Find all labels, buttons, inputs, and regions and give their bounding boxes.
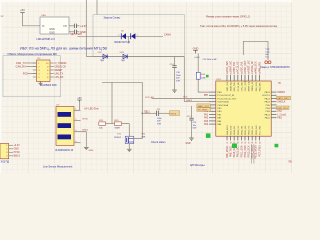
svg-text:PA2: PA2 — [204, 117, 209, 120]
svg-text:GND1: GND1 — [82, 129, 89, 131]
svg-text:VO: VO — [63, 25, 67, 28]
wire — [183, 57, 185, 102]
net class label — [197, 108, 211, 112]
wire — [81, 131, 87, 133]
svg-text:PA8_MCO1: PA8_MCO1 — [226, 145, 229, 158]
svg-text:PB9_TIM: PB9_TIM — [233, 62, 236, 72]
svg-text:X7R: X7R — [176, 80, 181, 82]
svg-text:TJA1050/3 SO8: TJA1050/3 SO8 — [40, 84, 58, 87]
wire — [184, 101, 209, 103]
svg-text:PB10_SC: PB10_SC — [238, 125, 240, 135]
green highlight — [206, 75, 209, 78]
svg-text:50V: 50V — [193, 128, 197, 130]
svg-text:C13 100n к МК: C13 100n к МК — [203, 59, 218, 61]
wire — [26, 62, 37, 64]
ground — [39, 82, 43, 86]
svg-text:50V: 50V — [176, 78, 180, 80]
wire — [74, 102, 80, 110]
svg-text:I2C_BUS1: I2C_BUS1 — [198, 110, 209, 112]
svg-text:VBAT_MC: VBAT_MC — [230, 81, 233, 91]
svg-text:PB11_SDA: PB11_SDA — [240, 145, 243, 157]
svg-text:ULN2003AFW 16: ULN2003AFW 16 — [55, 149, 74, 152]
svg-text:GND: GND — [89, 150, 94, 152]
wire — [122, 124, 130, 136]
svg-text:CANH: CANH — [164, 33, 171, 36]
green highlight — [275, 144, 279, 148]
wire — [96, 0, 98, 15]
wire — [198, 79, 209, 92]
svg-text:PA14: PA14 — [265, 97, 271, 100]
svg-text:PB14_MI: PB14_MI — [252, 126, 254, 135]
svg-text:PA8_MCO: PA8_MCO — [226, 125, 229, 135]
svg-text:+3.3V: +3.3V — [194, 57, 200, 59]
capacitor C1 — [75, 24, 80, 28]
svg-text:VI: VI — [42, 25, 45, 28]
crystal ZQ1 — [265, 61, 271, 64]
svg-text:SWCLK: SWCLK — [277, 102, 286, 104]
wire — [243, 41, 268, 60]
resistor R13 — [114, 120, 121, 129]
wire — [26, 66, 37, 68]
wire — [134, 82, 143, 138]
wire — [69, 25, 74, 27]
IC U7 LED driver — [56, 104, 74, 145]
wire — [111, 82, 113, 123]
svg-text:PB7: PB7 — [204, 95, 209, 97]
svg-text:PA9_TXD: PA9_TXD — [230, 125, 233, 135]
svg-text:PA6_MIS: PA6_MIS — [258, 62, 261, 72]
svg-text:Защита Схемы: Защита Схемы — [104, 17, 121, 20]
svg-text:PB3: PB3 — [277, 118, 282, 120]
section box Обвязка Микросхемы Сопряжения — [3, 52, 61, 97]
green highlight — [232, 144, 237, 149]
capacitor C2 — [75, 30, 80, 34]
svg-text:PC13_KE: PC13_KE — [238, 81, 240, 91]
svg-text:VSS/VSSA: VSS/VSSA — [217, 104, 228, 107]
svg-text:OSC_IN3: OSC_IN3 — [241, 81, 243, 91]
svg-text:CAN_RX: CAN_RX — [16, 66, 26, 69]
svg-text:OSC_OUT: OSC_OUT — [245, 80, 247, 91]
wire — [86, 56, 184, 58]
svg-text:+3.3V: +3.3V — [14, 145, 21, 147]
svg-text:PB13_SCK: PB13_SCK — [248, 145, 251, 157]
left pins — [202, 92, 237, 126]
note cap near IC — [266, 49, 271, 59]
svg-text:Такт. истончика в Мгц 16.000МГ: Такт. истончика в Мгц 16.000МГц + 5.05 ч… — [200, 24, 278, 28]
diode VD3 — [120, 52, 128, 62]
svg-text:PA3: PA3 — [204, 120, 209, 123]
svg-text:PA15: PA15 — [265, 101, 271, 104]
svg-text:X7R: X7R — [157, 123, 162, 125]
svg-text:PB15_MOSI: PB15_MOSI — [255, 145, 258, 159]
connector XS2 — [0, 144, 13, 159]
svg-text:DD1: DD1 — [217, 79, 222, 81]
capacitor C12 — [187, 116, 197, 138]
svg-text:PA13: PA13 — [265, 91, 271, 94]
wire — [142, 112, 156, 114]
svg-text:VDD_3V3: VDD_3V3 — [227, 81, 229, 91]
ground — [172, 90, 177, 92]
svg-text:ЦП Моторы: ЦП Моторы — [190, 163, 205, 167]
wire — [174, 57, 176, 66]
svg-text:50V: 50V — [157, 121, 161, 123]
diode D5 — [118, 30, 126, 39]
svg-text:PB10_SCL: PB10_SCL — [237, 145, 240, 157]
wire — [152, 98, 210, 100]
svg-text:UART_OUT: UART_OUT — [198, 105, 210, 108]
svg-text:NRST_MC: NRST_MC — [249, 81, 251, 92]
svg-text:ХС5 LED: ХС5 LED — [145, 97, 154, 99]
svg-text:PA11: PA11 — [265, 117, 271, 120]
wire — [78, 35, 122, 37]
IC U2 CAN transceiver — [33, 58, 54, 81]
ground — [185, 138, 193, 145]
svg-text:PA10_RX: PA10_RX — [233, 125, 236, 135]
svg-text:PA1: PA1 — [204, 113, 209, 116]
wire — [69, 31, 74, 33]
svg-text:XS2 ПД: XS2 ПД — [1, 160, 10, 163]
wire — [191, 106, 193, 118]
wire — [126, 35, 131, 37]
ground — [84, 147, 94, 152]
svg-text:VDD/VDDA: VDD/VDDA — [217, 101, 229, 104]
svg-text:PA6_MIS: PA6_MIS — [258, 82, 261, 91]
svg-text:GND: GND — [49, 31, 55, 34]
svg-text:GND: GND — [185, 143, 190, 145]
power port +5V — [77, 97, 82, 102]
pins — [74, 109, 81, 143]
resistor R14 — [196, 72, 206, 79]
svg-text:Check status: Check status — [151, 141, 166, 144]
svg-text:PA4: PA4 — [204, 123, 209, 126]
junction — [141, 112, 143, 114]
diode D6 — [131, 33, 139, 39]
svg-text:560R: 560R — [115, 127, 121, 129]
svg-text:Режим узла питания через GPIO_: Режим узла питания через GPIO_5 — [206, 15, 250, 19]
net class label — [277, 106, 290, 110]
svg-text:Обвяз. Микросхемы Сопряжения М: Обвяз. Микросхемы Сопряжения МК — [8, 52, 58, 56]
net class label — [197, 104, 211, 108]
svg-text:LM1117IMP-3.3: LM1117IMP-3.3 — [37, 37, 56, 41]
svg-text:Кварц к STM32F030K6T6: Кварц к STM32F030K6T6 — [261, 66, 291, 69]
section box Защита Схемы — [93, 15, 184, 57]
svg-text:PC7_TIM3: PC7_TIM3 — [258, 145, 261, 157]
svg-text:56R: 56R — [142, 136, 146, 138]
svg-text:ПУСК: ПУСК — [14, 152, 21, 154]
wire — [23, 14, 41, 26]
wire — [106, 123, 115, 125]
svg-text:NRST_MC: NRST_MC — [248, 60, 251, 72]
svg-text:PB15_MO: PB15_MO — [256, 125, 258, 135]
wire — [85, 0, 87, 57]
svg-text:ПВ: ПВ — [289, 162, 293, 164]
svg-text:VBAT_MC: VBAT_MC — [230, 61, 233, 72]
svg-text:PB12_NS: PB12_NS — [245, 125, 247, 135]
svg-text:BOOT0: BOOT0 — [262, 95, 270, 97]
green highlight — [206, 133, 211, 138]
svg-text:PA12: PA12 — [265, 113, 271, 116]
svg-text:+5V: +5V — [77, 97, 82, 100]
svg-text:UART_DBG: UART_DBG — [277, 97, 289, 100]
svg-text:VDDA_3V: VDDA_3V — [251, 61, 254, 72]
svg-text:ПСК: ПСК — [183, 97, 188, 99]
svg-text:PB11_SD: PB11_SD — [241, 125, 243, 134]
capacitor C11 — [157, 109, 170, 126]
svg-text:BAV99 SOT-23: BAV99 SOT-23 — [115, 41, 131, 44]
svg-text:PB13_SC: PB13_SC — [249, 125, 251, 135]
svg-text:near: near — [266, 50, 270, 53]
svg-text:PB9_TIM: PB9_TIM — [234, 82, 236, 91]
transistor VT1 — [114, 134, 134, 144]
svg-text:PC13_KE: PC13_KE — [237, 61, 240, 72]
svg-text:ПУСК: ПУСК — [170, 113, 177, 115]
wire — [250, 144, 252, 164]
wire — [28, 73, 37, 75]
svg-text:UV LED Driv: UV LED Driv — [84, 106, 99, 110]
power port +5V — [20, 8, 25, 14]
svg-text:PC9: PC9 — [23, 73, 28, 76]
voltage regulator DA1 — [40, 14, 69, 34]
svg-text:Line Sensor Measurement: Line Sensor Measurement — [43, 165, 73, 168]
svg-text:VDD_3V3: VDD_3V3 — [226, 61, 229, 72]
wire — [135, 35, 163, 37]
power port — [170, 111, 180, 116]
svg-text:GND: GND — [193, 46, 199, 50]
svg-text:1 3 Led1: 1 3 Led1 — [277, 114, 287, 116]
svg-text:PC7_TIM: PC7_TIM — [259, 126, 261, 135]
svg-text:2N7002: 2N7002 — [114, 137, 122, 139]
top pins with net labels — [226, 60, 262, 91]
svg-text:ПД1 СНАН: ПД1 СНАН — [70, 33, 82, 36]
power port GND — [193, 46, 199, 53]
svg-text:PA5_SCK: PA5_SCK — [255, 81, 258, 91]
wire — [253, 144, 255, 164]
svg-text:VDDA_3V: VDDA_3V — [251, 81, 254, 91]
svg-text:ИБУ: ЛЗ на 5МГц, ЛЗ для вх. ши: ИБУ: ЛЗ на 5МГц, ЛЗ для вх. шины питания… — [20, 47, 107, 51]
bottom pins with net labels — [226, 125, 262, 159]
svg-text:UIN_RX: UIN_RX — [55, 76, 64, 79]
capacitor C10 — [170, 64, 182, 90]
ground — [127, 143, 132, 151]
svg-text:OSC_IN3: OSC_IN3 — [240, 61, 243, 72]
svg-text:XT2:: XT2: — [277, 111, 282, 113]
svg-text:PC15-OSC32_OUT: PC15-OSC32_OUT — [217, 98, 237, 100]
diode VD2 — [98, 52, 108, 62]
right pins — [262, 91, 276, 120]
svg-text:GND1: GND1 — [186, 100, 193, 102]
resistor R12 — [99, 120, 106, 129]
svg-text:OSC_OUT: OSC_OUT — [244, 60, 247, 72]
svg-text:SWD_PRG: SWD_PRG — [277, 108, 288, 110]
microcontroller U1 STM32F030 — [216, 79, 271, 136]
wire — [197, 54, 199, 73]
svg-text:ПУСК: ПУСК — [82, 119, 89, 121]
wire — [127, 36, 129, 43]
svg-text:SWDIO: SWDIO — [277, 92, 285, 94]
svg-text:ВЫХ1: ВЫХ1 — [14, 156, 21, 158]
net class label — [277, 96, 291, 100]
wire — [102, 81, 142, 83]
svg-text:PB12_NSS: PB12_NSS — [244, 145, 247, 157]
svg-text:+5V: +5V — [20, 8, 25, 12]
wire — [85, 132, 87, 148]
svg-text:PA5_SCK: PA5_SCK — [255, 61, 258, 72]
svg-text:PC14-OSC32_IN: PC14-OSC32_IN — [217, 95, 234, 97]
svg-text:GND: GND — [14, 149, 19, 151]
